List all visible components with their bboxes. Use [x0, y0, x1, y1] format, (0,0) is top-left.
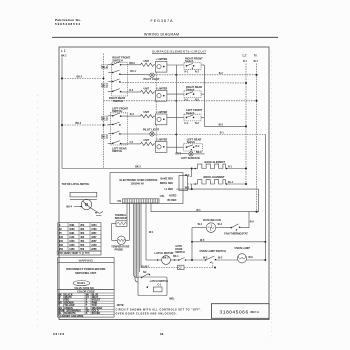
- svg-text:C-1: C-1: [158, 284, 163, 287]
- wire limiter2 to switch: [167, 93, 184, 95]
- svg-text:1760: 1760: [91, 228, 97, 231]
- oven control: ELECTRONIC OVEN CONTROL box: [110, 173, 183, 204]
- header underline: [52, 36, 278, 38]
- node L1: [61, 49, 67, 58]
- svg-text:1453: 1453: [69, 248, 75, 251]
- wire to latch motor: [145, 204, 147, 261]
- door latch mechanism bracket: [70, 192, 97, 199]
- oven lamp switch: [200, 249, 238, 267]
- svg-text:REV: A: REV: A: [251, 310, 260, 314]
- pilot light 2: [143, 128, 160, 137]
- svg-text:+ LIMITER: + LIMITER: [156, 111, 168, 114]
- svg-text:BREAKER: BREAKER: [115, 217, 127, 220]
- svg-text:1143: 1143: [69, 236, 75, 239]
- svg-text:BK-3: BK-3: [196, 151, 202, 154]
- svg-text:CIRCUIT SHOWN WITH ALL CONTROL: CIRCUIT SHOWN WITH ALL CONTROLS SET TO "…: [116, 308, 202, 311]
- resistance chart table: [58, 223, 101, 251]
- svg-text:+ LIMITER: + LIMITER: [156, 58, 168, 61]
- svg-text:BK-2: BK-2: [76, 122, 82, 125]
- svg-text:CN: CN: [118, 200, 122, 203]
- svg-text:250: 250: [80, 224, 85, 227]
- wire pilot2 to right side (long dashed): [154, 132, 265, 136]
- resistor: surface unit left front: [128, 111, 156, 118]
- svg-text:1350: 1350: [69, 244, 75, 247]
- wire L1 bus: [61, 58, 63, 169]
- svg-text:PILOT LIGHT: PILOT LIGHT: [143, 128, 160, 132]
- svg-text:N-2: N-2: [196, 145, 201, 148]
- svg-text:1 BL: 1 BL: [160, 195, 166, 198]
- svg-text:UNIT: UNIT: [144, 111, 150, 114]
- temperature probe: [111, 204, 129, 252]
- svg-text:N-2: N-2: [195, 98, 200, 101]
- switch: left rear power switch label: [187, 137, 202, 144]
- svg-text:R-3: R-3: [129, 89, 134, 92]
- svg-text:1000: 1000: [69, 228, 75, 231]
- svg-text:1654: 1654: [91, 224, 97, 227]
- switch box right rear power: [184, 91, 201, 102]
- wire switch3 out to L2: [201, 117, 247, 127]
- svg-text:OVEN DOOR CLOSED AND UNLOCKED.: OVEN DOOR CLOSED AND UNLOCKED.: [116, 313, 177, 316]
- wire limiter3 to switch: [167, 116, 184, 118]
- svg-text:300: 300: [80, 228, 85, 231]
- svg-text:OVEN LAMP: OVEN LAMP: [235, 246, 251, 250]
- door latch cam: [81, 199, 103, 216]
- resistance chart footer: [57, 251, 101, 255]
- switch box left front power: [184, 114, 201, 125]
- svg-text:NOTE:: NOTE:: [117, 304, 125, 307]
- resistor: surface unit right front: [128, 60, 156, 66]
- switch box left front / left rear (left column lower block): [110, 113, 127, 145]
- wire limiter4 to switch: [167, 146, 184, 148]
- switch box left rear power: [184, 144, 203, 152]
- svg-text:L 1: L 1: [61, 49, 66, 53]
- svg-text:318045066: 318045066: [220, 309, 249, 314]
- svg-text:BF RED: BF RED: [167, 199, 176, 202]
- right margin scan artifact dots: [271, 52, 273, 340]
- thermal breaker: [115, 204, 127, 227]
- wire switch1 to bus: [201, 64, 204, 66]
- svg-text:W-2: W-2: [203, 256, 208, 259]
- svg-text:BK-4: BK-4: [67, 206, 73, 209]
- svg-text:SWITCH: SWITCH: [175, 251, 185, 254]
- pilot light 1: [144, 73, 161, 81]
- svg-text:B-3: B-3: [130, 113, 135, 116]
- svg-text:BL/W-1: BL/W-1: [141, 265, 150, 268]
- svg-text:SURFACE-ELEMENTS-CIRCUIT: SURFACE-ELEMENTS-CIRCUIT: [152, 50, 206, 54]
- wire limiter column interconnect: [155, 72, 157, 141]
- wire harness bundle from oven control: [134, 204, 155, 283]
- svg-text:HOT SURFACE: HOT SURFACE: [181, 156, 200, 160]
- svg-text:L2: L2: [243, 54, 247, 58]
- svg-text:SWITCH: SWITCH: [112, 58, 122, 62]
- svg-text:SILVER: SILVER: [92, 312, 101, 315]
- svg-text:W-4: W-4: [218, 223, 223, 226]
- switch contact row 1 (left front, to unit): [108, 113, 128, 117]
- color code table: [58, 289, 115, 318]
- switch: RIGHT FRONT SWITCH label: [112, 56, 130, 63]
- svg-text:BK-2: BK-2: [102, 66, 108, 69]
- svg-text:BK-2: BK-2: [163, 256, 169, 259]
- svg-text:200: 200: [59, 244, 64, 247]
- wire broil to L2: [227, 183, 247, 185]
- switch: LEFT REAR SWITCH label: [112, 146, 127, 153]
- svg-text:N RED: N RED: [169, 194, 177, 197]
- wire right vertical bus: [203, 65, 205, 126]
- svg-text:DISCONNECT POWER BEFORE: DISCONNECT POWER BEFORE: [66, 267, 105, 271]
- svg-text:BAKE RED: BAKE RED: [161, 178, 174, 181]
- svg-text:19: 19: [160, 332, 164, 336]
- svg-text:BK-2: BK-2: [102, 84, 108, 87]
- svg-text:B-6: B-6: [250, 220, 255, 223]
- svg-text:OVEN LAMP SWITCH: OVEN LAMP SWITCH: [200, 249, 226, 253]
- wire N drop right side: [264, 134, 266, 260]
- thermal limiter 3: [155, 111, 167, 125]
- oven control connector comb CN: [118, 199, 160, 203]
- svg-text:W-4: W-4: [198, 223, 203, 226]
- resistor: surface unit left rear: [128, 139, 156, 146]
- switch: RIGHT REAR SWITCH label: [109, 96, 125, 103]
- svg-text:250: 250: [59, 248, 64, 251]
- svg-text:R-1: R-1: [243, 60, 248, 63]
- svg-text:BK-1: BK-1: [61, 55, 67, 58]
- svg-text:1091: 1091: [69, 232, 75, 235]
- switch: LEFT FRONT SWITCH label: [112, 106, 129, 113]
- switch contact row 4 (right rear, to unit): [108, 89, 128, 93]
- wire mid vertical bus: [175, 65, 177, 153]
- node N: [254, 54, 259, 64]
- svg-text:FAN THERMOSTAT: FAN THERMOSTAT: [224, 231, 248, 235]
- svg-text:5995398504: 5995398504: [55, 22, 80, 26]
- svg-text:2258: 2258: [91, 248, 97, 251]
- svg-text:2057: 2057: [91, 240, 97, 243]
- wire BK-2 feed lower from L1: [61, 122, 110, 126]
- terminal box BK-3 upper: [101, 116, 108, 120]
- svg-text:SWITCH: SWITCH: [112, 149, 122, 153]
- svg-text:1246: 1246: [69, 240, 75, 243]
- switch contact row 3 (right rear): [108, 79, 247, 84]
- svg-text:UNIT: UNIT: [144, 139, 150, 142]
- svg-text:BK-2: BK-2: [135, 166, 141, 169]
- svg-text:2153: 2153: [91, 244, 97, 247]
- heating element: bake: [194, 164, 232, 169]
- header publication number: [55, 18, 81, 26]
- thermal limiter 4: [155, 139, 167, 153]
- svg-text:W-1: W-1: [196, 209, 201, 212]
- svg-text:W-2: W-2: [218, 256, 223, 259]
- capacitor C2: [178, 265, 185, 270]
- svg-text:BROIL RED: BROIL RED: [160, 182, 173, 185]
- svg-text:02/03: 02/03: [53, 332, 64, 336]
- thermal limiter 2: [155, 87, 167, 101]
- wire BK-2 feed from L1 to BK bus: [61, 75, 105, 79]
- wire L2 bus: [245, 64, 247, 186]
- switch box right front / right rear (left column upper block): [112, 63, 128, 96]
- svg-text:LATCH MOTOR: LATCH MOTOR: [155, 251, 174, 255]
- svg-text:B-2: B-2: [219, 72, 224, 75]
- terminal box BK-3 lower: [101, 135, 108, 139]
- hot surface indicator light: [176, 151, 205, 160]
- wire switch2 to bus: [201, 93, 204, 95]
- svg-text:N-2: N-2: [195, 122, 200, 125]
- wire pilot1 to N: [154, 72, 257, 76]
- latch motor: [146, 251, 178, 265]
- svg-text:550: 550: [80, 248, 85, 251]
- svg-text:L1 RED: L1 RED: [164, 188, 173, 191]
- svg-text:1857: 1857: [91, 232, 97, 235]
- thermal limiter 1: [155, 58, 167, 72]
- svg-text:H-1: H-1: [185, 122, 190, 125]
- switch contact row 2 (right front, to pilot): [108, 70, 150, 75]
- svg-text:350: 350: [80, 232, 85, 235]
- terminal box BK-2 lower: [101, 83, 108, 87]
- svg-text:SERVICING UNIT.: SERVICING UNIT.: [75, 271, 97, 275]
- svg-text:BK-3: BK-3: [102, 117, 108, 120]
- switch contact row 3 (left rear, to pilot): [108, 131, 150, 135]
- svg-text:PILOT LIGHT: PILOT LIGHT: [144, 77, 161, 81]
- svg-text:BU-1: BU-1: [130, 70, 136, 73]
- part number box: [211, 304, 269, 319]
- svg-text:R-1: R-1: [228, 165, 233, 168]
- svg-text:RTD OHMS TEMP °F @ 75°F: RTD OHMS TEMP °F @ 75°F: [58, 252, 90, 255]
- svg-text:+ LIMITER: + LIMITER: [156, 87, 168, 90]
- switch contact row 4 (left rear, to unit): [108, 141, 128, 145]
- latch switch assembly box: [138, 271, 168, 296]
- svg-text:120/240 VA: 120/240 VA: [131, 182, 145, 186]
- svg-text:W-1: W-1: [149, 231, 154, 234]
- wire long middle to N: [104, 100, 258, 102]
- left margin scan artifact dots: [37, 95, 39, 330]
- resistor: surface unit right rear: [128, 88, 156, 94]
- svg-text:H-1: H-1: [185, 70, 190, 73]
- svg-text:1957: 1957: [91, 236, 97, 239]
- oven circuit enclosure top edge: [176, 186, 258, 211]
- svg-text:W-3: W-3: [219, 123, 224, 126]
- svg-text:1091: 1091: [69, 224, 75, 227]
- terminal box BK-2 upper: [101, 65, 108, 69]
- svg-text:BK-2: BK-2: [77, 75, 83, 78]
- wire N bus: [256, 64, 258, 212]
- switch contact row 1 (right front, to unit): [108, 62, 128, 66]
- svg-text:W-1: W-1: [254, 60, 259, 63]
- wire limiter1 to switch: [167, 64, 184, 66]
- svg-text:BL-1: BL-1: [228, 181, 234, 184]
- svg-text:TOP DR LATCH-SWITCH: TOP DR LATCH-SWITCH: [62, 183, 90, 186]
- oven control right side connector: [179, 176, 188, 191]
- svg-text:WIRING DIAGRAM: WIRING DIAGRAM: [144, 33, 179, 37]
- oven lamp: [235, 246, 267, 263]
- wire relay drop to bake line: [185, 168, 193, 177]
- warning box: [58, 257, 115, 289]
- svg-text:W-6: W-6: [248, 256, 253, 259]
- svg-text:W-3: W-3: [185, 174, 190, 177]
- svg-text:BROIL ELEMENT: BROIL ELEMENT: [204, 175, 226, 179]
- svg-text:BK-3: BK-3: [102, 136, 108, 139]
- svg-text:UNIT: UNIT: [144, 60, 150, 63]
- main diagram border: [59, 47, 269, 320]
- wire BK bus (dashed vertical): [103, 54, 105, 169]
- svg-text:* CABINET GND WIRE: * CABINET GND WIRE: [58, 315, 84, 318]
- section title SURFACE-ELEMENTS-CIRCUIT: [152, 50, 206, 54]
- svg-text:UNIT: UNIT: [144, 88, 150, 91]
- svg-text:BAKE ELEMENT: BAKE ELEMENT: [205, 160, 226, 164]
- switch: right front power switch label: [185, 56, 203, 63]
- svg-text:WARNING: WARNING: [79, 259, 94, 263]
- svg-text:W-5: W-5: [200, 239, 205, 242]
- cooling fan circuit: [192, 218, 231, 232]
- svg-text:450: 450: [80, 240, 85, 243]
- svg-text:H-1: H-1: [185, 98, 190, 101]
- svg-text:PROBE: PROBE: [115, 248, 124, 251]
- switch: right rear power switch label: [186, 85, 202, 92]
- heating element: broil: [194, 180, 234, 185]
- svg-text:400: 400: [80, 236, 85, 239]
- svg-text:500: 500: [80, 244, 85, 247]
- switch contact row 2 (left front): [108, 122, 120, 126]
- svg-text:COOLING FAN: COOLING FAN: [203, 218, 221, 222]
- svg-text:ELECTRONIC OVEN CONTROL: ELECTRONIC OVEN CONTROL: [120, 178, 159, 182]
- svg-text:N-2: N-2: [195, 70, 200, 73]
- svg-text:BR-2: BR-2: [129, 62, 135, 65]
- svg-text:100: 100: [59, 236, 64, 239]
- node L2: [243, 54, 248, 64]
- wire L1 run to bake element: [62, 166, 195, 169]
- wire BK to latch cam: [67, 206, 83, 209]
- wire fan return: [191, 228, 266, 260]
- svg-text:+ LIMITER: + LIMITER: [156, 139, 168, 142]
- svg-text:LATCH SWITCH: LATCH SWITCH: [150, 280, 168, 283]
- wire dashed door circuit: [141, 265, 216, 268]
- switch: left front power switch label: [186, 108, 203, 115]
- svg-text:BL/W-1: BL/W-1: [77, 282, 86, 285]
- svg-text:BK-1: BK-1: [173, 255, 179, 258]
- wire N feed row: [151, 204, 259, 213]
- svg-text:150: 150: [59, 240, 64, 243]
- svg-text:B-1: B-1: [220, 132, 225, 135]
- svg-text:MOL: MOL: [169, 298, 175, 301]
- note text: [116, 304, 202, 316]
- wire bake to L2: [227, 167, 247, 169]
- switch box right front power: [184, 63, 201, 74]
- wire relay to broil line: [188, 184, 196, 190]
- auto door switch: [173, 245, 205, 261]
- svg-text:NC: NC: [143, 271, 147, 274]
- svg-text:W-2: W-2: [185, 186, 190, 189]
- fan thermostat switch: [224, 212, 254, 236]
- svg-text:FEG387A: FEG387A: [151, 19, 174, 23]
